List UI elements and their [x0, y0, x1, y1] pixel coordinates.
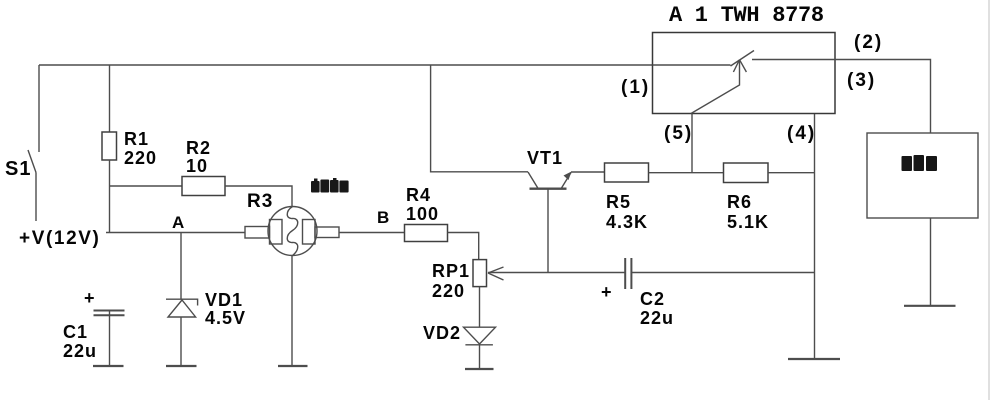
- border right edge: [988, 0, 990, 400]
- wire top rail: [39, 64, 653, 66]
- switch S1: [28, 65, 39, 221]
- svg-text:22u: 22u: [63, 341, 97, 361]
- wire pin4 rail: [814, 114, 816, 360]
- wire node B: [339, 232, 405, 234]
- capacitor C2: [625, 258, 631, 289]
- resistor R2: [182, 177, 225, 196]
- IC switch blade: [731, 51, 755, 67]
- wire R4 to RP1: [448, 233, 479, 260]
- svg-text:A: A: [172, 213, 185, 232]
- resistor R6: [724, 163, 769, 183]
- svg-text:R1: R1: [124, 129, 149, 149]
- svg-text:220: 220: [124, 148, 157, 168]
- svg-text:RP1: RP1: [432, 261, 470, 281]
- resistor R5: [605, 163, 649, 182]
- svg-text:4.5V: 4.5V: [205, 308, 246, 328]
- wire pin5: [691, 114, 693, 173]
- ground pin4: [788, 358, 840, 360]
- transistor VT1: [528, 172, 605, 273]
- wire R2 left: [110, 185, 183, 187]
- node A: [180, 233, 182, 300]
- svg-text:VD1: VD1: [205, 290, 243, 310]
- ground VD1: [166, 365, 197, 367]
- wire speaker ground: [930, 218, 932, 306]
- resistor R4: [405, 225, 448, 242]
- svg-text:R2: R2: [186, 138, 211, 158]
- gas sensor R3: [245, 207, 339, 256]
- svg-text:+: +: [84, 288, 96, 308]
- wire R5-R6: [649, 172, 724, 174]
- svg-text:C2: C2: [640, 289, 665, 309]
- wire pin1 internal: [653, 64, 731, 66]
- zener diode VD1: [166, 299, 198, 366]
- resistor R1: [102, 65, 117, 233]
- speaker box: [867, 133, 978, 218]
- ground C1: [93, 365, 124, 367]
- svg-text:(2): (2): [854, 32, 883, 53]
- svg-text:10: 10: [186, 156, 208, 176]
- svg-text:(5): (5): [664, 123, 693, 144]
- svg-text:(3): (3): [847, 70, 876, 91]
- svg-text:VT1: VT1: [527, 148, 563, 168]
- wire +V rail: [106, 232, 245, 234]
- wire R3 bottom: [291, 256, 293, 367]
- svg-text:5.1K: 5.1K: [727, 212, 769, 232]
- wire C2 right: [631, 272, 814, 274]
- ground speaker: [904, 305, 956, 307]
- ground VD2: [465, 368, 494, 370]
- IC U1 TWH8778: [653, 33, 836, 114]
- svg-text:S1: S1: [5, 158, 31, 180]
- svg-text:R3: R3: [247, 191, 273, 212]
- potentiometer RP1: [473, 260, 504, 287]
- diode VD2: [464, 287, 496, 369]
- svg-text:R4: R4: [406, 185, 431, 205]
- svg-text:+V(12V): +V(12V): [19, 228, 100, 249]
- wire output pin2: [752, 60, 931, 134]
- svg-text:A 1 TWH 8778: A 1 TWH 8778: [669, 3, 824, 28]
- svg-text:C1: C1: [63, 322, 88, 342]
- ground R3: [278, 365, 308, 367]
- svg-text:4.3K: 4.3K: [606, 212, 648, 232]
- svg-text:R6: R6: [727, 192, 752, 212]
- capacitor C1: [94, 311, 125, 367]
- wire collector rail: [431, 65, 528, 172]
- wire R2 right: [225, 186, 292, 207]
- svg-text:100: 100: [406, 204, 439, 224]
- svg-text:R5: R5: [606, 192, 631, 212]
- svg-text:VD2: VD2: [423, 323, 461, 343]
- svg-text:(1): (1): [621, 77, 650, 98]
- svg-text:(4): (4): [787, 123, 816, 144]
- label gas sensor chinese: [311, 178, 349, 193]
- label speaker chinese: [902, 155, 938, 171]
- IC wiper arrow: [691, 60, 746, 114]
- svg-text:B: B: [377, 208, 390, 227]
- wire RP1 wiper: [488, 272, 625, 274]
- wire R6 right: [768, 172, 815, 174]
- svg-text:220: 220: [432, 281, 465, 301]
- svg-text:+: +: [601, 282, 613, 302]
- svg-text:22u: 22u: [640, 308, 674, 328]
